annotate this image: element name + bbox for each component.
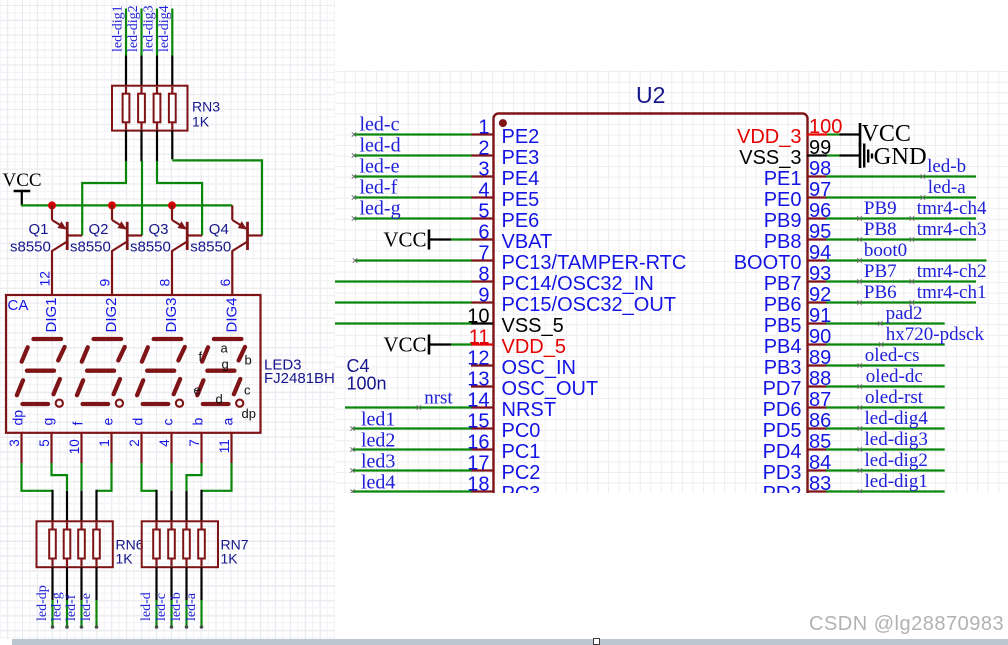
resistor network RN6 bbox=[37, 521, 113, 567]
net label anchor marker nrst bbox=[417, 405, 421, 409]
svg-text:dp: dp bbox=[242, 406, 256, 421]
net label anchor marker (pin 91) bbox=[878, 321, 882, 325]
wire end marker pin 5 bbox=[352, 216, 356, 220]
pin 6 VBAT (U2 left) bbox=[471, 222, 552, 254]
transistor Q4 s8550 bbox=[232, 205, 262, 251]
svg-text:1K: 1K bbox=[116, 551, 134, 567]
transistor Q3 s8550 bbox=[172, 205, 202, 251]
wire pin 100 to VCC bbox=[827, 133, 860, 135]
svg-text:PE6: PE6 bbox=[502, 210, 540, 232]
transistor Q2 s8550 bbox=[112, 205, 142, 251]
svg-text:4: 4 bbox=[157, 439, 172, 447]
wire to pin 16 bbox=[353, 448, 472, 450]
svg-text:c: c bbox=[160, 419, 176, 426]
wire end dot led-d bbox=[155, 625, 159, 629]
svg-text:a: a bbox=[221, 341, 229, 356]
wire to pin 7 bbox=[355, 259, 472, 261]
svg-text:d: d bbox=[130, 418, 146, 426]
wire end dot led-f bbox=[80, 625, 84, 629]
pin 7 stub (LED3) bbox=[200, 433, 202, 463]
svg-text:PE4: PE4 bbox=[502, 168, 540, 190]
svg-text:PB7: PB7 bbox=[764, 273, 802, 295]
junction dot at x=172 bbox=[168, 201, 176, 209]
wire end marker pin 7 bbox=[353, 258, 357, 262]
svg-text:4: 4 bbox=[478, 180, 489, 202]
svg-text:1: 1 bbox=[478, 117, 489, 139]
svg-text:PC3: PC3 bbox=[502, 483, 541, 505]
pin 14 NRST (U2 left) bbox=[467, 390, 556, 422]
net label anchor marker (pin 84) bbox=[858, 468, 862, 472]
svg-text:1: 1 bbox=[97, 439, 112, 447]
svg-text:dp: dp bbox=[10, 410, 26, 426]
svg-text:13: 13 bbox=[467, 369, 489, 391]
pin 12 OSC_IN (U2 left) bbox=[467, 348, 576, 380]
svg-text:6: 6 bbox=[217, 279, 233, 287]
wire end marker pin 17 bbox=[350, 468, 354, 472]
pin 3 stub (LED3) bbox=[20, 433, 22, 463]
svg-text:PD4: PD4 bbox=[763, 441, 802, 463]
svg-text:led-g: led-g bbox=[360, 198, 401, 220]
resistor network RN3 bbox=[112, 86, 188, 131]
svg-text:PE5: PE5 bbox=[502, 189, 540, 211]
wire to pin 10 bbox=[335, 322, 472, 324]
net label anchor marker (pin 92) bbox=[910, 300, 914, 304]
svg-text:100n: 100n bbox=[347, 374, 387, 394]
svg-text:DIG3: DIG3 bbox=[163, 297, 180, 332]
pin 84 PD3 (U2 right) bbox=[763, 452, 832, 484]
svg-text:PD2: PD2 bbox=[763, 483, 802, 505]
net label anchor marker (pin 97) bbox=[921, 195, 925, 199]
svg-text:DIG1: DIG1 bbox=[43, 297, 60, 332]
wire from pin 93 bbox=[826, 280, 976, 282]
svg-text:5: 5 bbox=[37, 439, 52, 447]
wire from pin 85 bbox=[826, 448, 945, 450]
pin 5 PE6 (U2 left) bbox=[471, 201, 539, 233]
wire led-dp output bbox=[51, 567, 53, 626]
svg-text:led-dig2: led-dig2 bbox=[865, 450, 928, 471]
svg-text:PC1: PC1 bbox=[502, 441, 541, 463]
wire to pin 9 bbox=[335, 301, 472, 303]
svg-text:PB3: PB3 bbox=[764, 357, 802, 379]
svg-text:VBAT: VBAT bbox=[502, 231, 553, 253]
svg-text:led-dig4: led-dig4 bbox=[157, 5, 172, 52]
svg-text:VCC: VCC bbox=[383, 333, 426, 357]
svg-text:BOOT0: BOOT0 bbox=[734, 252, 802, 274]
wire led-dig4 to RN3 bbox=[171, 9, 173, 87]
wire LED3 pin to RN 7 bbox=[187, 463, 202, 521]
svg-text:s8550: s8550 bbox=[70, 239, 111, 256]
svg-text:led-c: led-c bbox=[154, 593, 169, 621]
wire led-g output bbox=[66, 567, 68, 626]
pin 1 stub (LED3) bbox=[110, 433, 112, 463]
svg-text:OSC_OUT: OSC_OUT bbox=[502, 378, 599, 400]
wire end marker pin 1 bbox=[352, 132, 356, 136]
svg-text:led-a: led-a bbox=[184, 592, 199, 621]
wire to pin 8 bbox=[335, 280, 472, 282]
net label anchor marker (pin 92) bbox=[857, 300, 861, 304]
wire RN3.3 to Q3 base bbox=[157, 131, 202, 236]
7-segment display LED3 FJ2481BH bbox=[6, 295, 261, 433]
wire RN3.4 to Q4 base bbox=[172, 131, 262, 236]
power port VCC (left) bbox=[3, 170, 42, 205]
svg-text:12: 12 bbox=[37, 271, 53, 287]
wire end dot led-dp bbox=[51, 625, 55, 629]
svg-text:led-dig1: led-dig1 bbox=[865, 471, 928, 492]
svg-text:1K: 1K bbox=[221, 551, 239, 567]
svg-text:e: e bbox=[194, 383, 201, 398]
power ground GND (pin 99) bbox=[860, 143, 927, 170]
wire LED3 pin to RN 3 bbox=[80, 463, 82, 521]
svg-text:3: 3 bbox=[7, 439, 22, 447]
power port VCC (pin 11) bbox=[383, 333, 471, 357]
svg-text:DIG2: DIG2 bbox=[103, 297, 120, 332]
wire LED3 pin to RN 8 bbox=[202, 463, 232, 521]
svg-text:9: 9 bbox=[478, 285, 489, 307]
svg-text:led-f: led-f bbox=[64, 594, 79, 621]
svg-text:PB5: PB5 bbox=[764, 315, 802, 337]
pin 10 VSS_5 (U2 left) bbox=[467, 306, 564, 338]
wire from pin 91 bbox=[826, 322, 945, 324]
svg-text:RN3: RN3 bbox=[192, 99, 220, 115]
watermark bbox=[809, 613, 1004, 636]
wire from pin 83 bbox=[826, 490, 945, 492]
pin 8 PC14/OSC32_IN (U2 left) bbox=[471, 264, 654, 296]
wire led-f output bbox=[80, 567, 82, 626]
pin 13 OSC_OUT (U2 left) bbox=[467, 369, 598, 401]
net label anchor marker (pin 87) bbox=[858, 405, 862, 409]
wire LED3 pin to RN 4 bbox=[97, 463, 112, 521]
svg-text:e: e bbox=[100, 418, 116, 426]
pin 88 PD7 (U2 right) bbox=[763, 368, 832, 400]
wire from pin 96 bbox=[826, 217, 976, 219]
wire end marker pin 16 bbox=[350, 447, 354, 451]
right panel background bbox=[335, 70, 1008, 493]
wire led-dig3 to RN3 bbox=[156, 9, 158, 87]
wire led-d output bbox=[155, 567, 157, 626]
svg-text:tmr4-ch2: tmr4-ch2 bbox=[917, 261, 987, 282]
wire from pin 92 bbox=[826, 301, 976, 303]
transistor Q1 s8550 bbox=[52, 205, 82, 251]
net label anchor marker (pin 86) bbox=[858, 426, 862, 430]
wire to pin 5 bbox=[354, 217, 472, 219]
svg-text:PB4: PB4 bbox=[764, 336, 802, 358]
pin 2 PE3 (U2 left) bbox=[471, 138, 539, 170]
svg-text:VCC: VCC bbox=[383, 228, 426, 252]
svg-text:f: f bbox=[199, 349, 203, 364]
svg-text:led-dig3: led-dig3 bbox=[865, 429, 928, 450]
wire led-dig1 to RN3 bbox=[125, 9, 127, 87]
svg-text:PD5: PD5 bbox=[763, 420, 802, 442]
svg-text:VSS_3: VSS_3 bbox=[739, 147, 801, 169]
wire led-a output bbox=[200, 567, 202, 626]
wire end marker pin 15 bbox=[350, 426, 354, 430]
wire RN3.1 to Q1 base bbox=[82, 131, 126, 236]
svg-text:Q3: Q3 bbox=[149, 221, 169, 238]
svg-text:FJ2481BH: FJ2481BH bbox=[264, 370, 335, 387]
pin 99 VSS_3 (U2 right) bbox=[739, 137, 831, 169]
svg-text:tmr4-ch3: tmr4-ch3 bbox=[917, 219, 987, 240]
left grid background bbox=[0, 0, 335, 639]
pin 97 PE0 (U2 right) bbox=[764, 179, 832, 211]
digit glyph DIG4 bbox=[197, 339, 245, 407]
net label anchor marker (pin 98) bbox=[921, 174, 925, 178]
svg-text:PB6: PB6 bbox=[864, 282, 897, 303]
wire end marker pin 18 bbox=[350, 489, 354, 493]
net label anchor marker (pin 93) bbox=[910, 279, 914, 283]
wire end dot led-b bbox=[185, 625, 189, 629]
pin 1 PE2 (U2 left) bbox=[471, 117, 539, 149]
digit glyph DIG2 bbox=[77, 339, 125, 407]
svg-text:PC0: PC0 bbox=[502, 420, 541, 442]
wire to pin 1 bbox=[354, 133, 472, 135]
svg-text:led-b: led-b bbox=[169, 592, 184, 621]
svg-text:Q2: Q2 bbox=[89, 221, 109, 238]
pin 83 PD2 (U2 right) bbox=[763, 473, 832, 505]
pin 4 PE5 (U2 left) bbox=[471, 180, 539, 212]
svg-text:led-dig4: led-dig4 bbox=[865, 408, 929, 429]
wire end marker pin 3 bbox=[352, 174, 356, 178]
svg-text:PC14/OSC32_IN: PC14/OSC32_IN bbox=[502, 273, 654, 295]
svg-text:PE2: PE2 bbox=[502, 126, 540, 148]
wire end marker pin 2 bbox=[352, 153, 356, 157]
pin 11 VDD_5 (U2 left) bbox=[469, 327, 566, 359]
wire LED3 pin to RN 1 bbox=[22, 463, 53, 521]
svg-text:11: 11 bbox=[217, 439, 232, 453]
svg-text:d: d bbox=[216, 392, 223, 407]
svg-text:led-g: led-g bbox=[50, 592, 65, 621]
svg-text:oled-rst: oled-rst bbox=[865, 387, 924, 408]
resistor network RN7 bbox=[142, 521, 218, 567]
svg-text:PB8: PB8 bbox=[764, 231, 802, 253]
svg-text:VCC: VCC bbox=[3, 170, 42, 191]
net label anchor marker (pin 93) bbox=[857, 279, 861, 283]
wire Q2 collector to LED3 bbox=[111, 250, 113, 295]
svg-text:12: 12 bbox=[467, 348, 489, 370]
svg-text:led2: led2 bbox=[361, 430, 395, 452]
wire led-dig2 to RN3 bbox=[140, 9, 142, 87]
wire VCC rail bbox=[21, 204, 232, 206]
svg-text:tmr4-ch4: tmr4-ch4 bbox=[917, 198, 987, 219]
svg-text:PB7: PB7 bbox=[864, 261, 897, 282]
svg-text:led-dig2: led-dig2 bbox=[126, 5, 141, 52]
digit glyph DIG1 bbox=[17, 339, 65, 407]
net label anchor marker (pin 83) bbox=[858, 489, 862, 493]
wire end dot led-a bbox=[200, 625, 204, 629]
svg-text:8: 8 bbox=[478, 264, 489, 286]
digit glyph DIG3 bbox=[137, 339, 185, 407]
wire to pin 15 bbox=[353, 427, 472, 429]
pin 18 PC3 (U2 left) bbox=[467, 474, 540, 506]
pin 86 PD5 (U2 right) bbox=[763, 410, 832, 442]
pin 89 PB3 (U2 right) bbox=[764, 347, 832, 379]
svg-text:PB8: PB8 bbox=[864, 219, 897, 240]
svg-text:s8550: s8550 bbox=[10, 239, 51, 256]
svg-text:pad2: pad2 bbox=[886, 303, 923, 324]
wire pin 99 to GND bbox=[827, 154, 860, 156]
svg-text:U2: U2 bbox=[636, 82, 665, 108]
scrollbar band bbox=[12, 639, 1008, 645]
svg-text:VDD_3: VDD_3 bbox=[737, 126, 801, 148]
svg-text:PB9: PB9 bbox=[864, 198, 897, 219]
wire from pin 95 bbox=[826, 238, 976, 240]
wire end dot led-c bbox=[170, 625, 174, 629]
svg-text:a: a bbox=[220, 418, 236, 426]
pin 90 PB4 (U2 right) bbox=[764, 326, 832, 358]
svg-text:led-c: led-c bbox=[360, 114, 400, 136]
svg-text:PB6: PB6 bbox=[764, 294, 802, 316]
svg-text:b: b bbox=[190, 418, 206, 426]
svg-text:PD7: PD7 bbox=[763, 378, 802, 400]
wire to pin 18 bbox=[353, 490, 472, 492]
pin 2 stub (LED3) bbox=[140, 433, 142, 463]
svg-text:led3: led3 bbox=[361, 451, 395, 473]
net label anchor marker (pin 94) bbox=[857, 258, 861, 262]
wire from pin 89 bbox=[826, 364, 945, 366]
svg-text:DIG4: DIG4 bbox=[224, 297, 241, 332]
svg-text:Q1: Q1 bbox=[29, 221, 49, 238]
svg-text:led-b: led-b bbox=[927, 156, 966, 177]
pin 91 PB5 (U2 right) bbox=[764, 305, 832, 337]
pin 95 PB8 (U2 right) bbox=[764, 221, 832, 253]
wire to pin 3 bbox=[354, 175, 472, 177]
svg-text:11: 11 bbox=[469, 327, 490, 349]
pin-1 marker dot (U2) bbox=[499, 119, 507, 127]
svg-text:PC15/OSC32_OUT: PC15/OSC32_OUT bbox=[502, 294, 677, 316]
wire from pin 97 bbox=[826, 196, 976, 198]
wire end marker pin 4 bbox=[352, 195, 356, 199]
pin 5 stub (LED3) bbox=[50, 433, 52, 463]
pin 10 stub (LED3) bbox=[80, 433, 82, 463]
selection handle bbox=[593, 638, 600, 645]
svg-text:PE1: PE1 bbox=[764, 168, 802, 190]
net label anchor marker (pin 89) bbox=[858, 363, 862, 367]
svg-text:10: 10 bbox=[67, 439, 82, 454]
svg-text:8: 8 bbox=[157, 279, 173, 287]
pin 7 PC13/TAMPER-RTC (U2 left) bbox=[471, 243, 686, 275]
net label anchor marker (pin 96) bbox=[857, 216, 861, 220]
wire LED3 pin to RN 2 bbox=[52, 463, 68, 521]
net label anchor marker (pin 95) bbox=[910, 237, 914, 241]
wire from pin 84 bbox=[826, 469, 945, 471]
wire to pin 17 bbox=[353, 469, 472, 471]
svg-text:f: f bbox=[70, 422, 86, 426]
svg-text:s8550: s8550 bbox=[130, 239, 171, 256]
wire from pin 98 bbox=[826, 175, 976, 177]
svg-text:g: g bbox=[222, 357, 229, 372]
svg-text:PE0: PE0 bbox=[764, 189, 802, 211]
wire led-e output bbox=[95, 567, 97, 626]
svg-text:led-dp: led-dp bbox=[35, 585, 50, 621]
wire Q3 collector to LED3 bbox=[171, 250, 173, 295]
svg-text:PE3: PE3 bbox=[502, 147, 540, 169]
svg-text:b: b bbox=[245, 353, 252, 368]
pin 100 VDD_3 (U2 right) bbox=[737, 116, 842, 148]
wire end dot led-g bbox=[65, 625, 69, 629]
svg-text:oled-dc: oled-dc bbox=[866, 366, 923, 387]
svg-text:2: 2 bbox=[478, 138, 489, 160]
svg-text:led-d: led-d bbox=[360, 135, 401, 157]
svg-text:CA: CA bbox=[8, 297, 29, 314]
pin 3 PE4 (U2 left) bbox=[471, 159, 539, 191]
svg-text:7: 7 bbox=[478, 243, 489, 265]
net label anchor marker (pin 95) bbox=[857, 237, 861, 241]
wire LED3 pin to RN 5 bbox=[142, 463, 157, 521]
svg-text:led-e: led-e bbox=[79, 593, 94, 621]
svg-text:VSS_5: VSS_5 bbox=[502, 315, 564, 337]
svg-text:tmr4-ch1: tmr4-ch1 bbox=[917, 282, 987, 303]
pin 4 stub (LED3) bbox=[170, 433, 172, 463]
pin 92 PB6 (U2 right) bbox=[764, 284, 832, 316]
wire LED3 pin to RN 6 bbox=[170, 463, 172, 521]
pin 15 PC0 (U2 left) bbox=[467, 411, 540, 443]
svg-text:led-dig1: led-dig1 bbox=[111, 5, 126, 52]
pin 98 PE1 (U2 right) bbox=[764, 158, 832, 190]
power port VCC (pin 6) bbox=[383, 228, 471, 252]
power port VCC (pin 100) bbox=[860, 121, 911, 147]
svg-text:NRST: NRST bbox=[502, 399, 556, 421]
pin 17 PC2 (U2 left) bbox=[467, 453, 540, 485]
wire Q1 collector to LED3 bbox=[51, 250, 53, 295]
pin 87 PD6 (U2 right) bbox=[763, 389, 832, 421]
svg-text:nrst: nrst bbox=[424, 388, 453, 409]
wire to pin 14 bbox=[345, 406, 472, 408]
svg-text:led-a: led-a bbox=[928, 177, 967, 198]
svg-text:9: 9 bbox=[97, 279, 113, 287]
pin 16 PC1 (U2 left) bbox=[467, 432, 540, 464]
svg-text:led-dig3: led-dig3 bbox=[142, 5, 157, 52]
svg-text:2: 2 bbox=[127, 439, 142, 447]
svg-text:OSC_IN: OSC_IN bbox=[502, 357, 576, 379]
svg-text:7: 7 bbox=[187, 439, 202, 447]
svg-text:s8550: s8550 bbox=[190, 239, 231, 256]
wire to pin 4 bbox=[354, 196, 472, 198]
pin 9 PC15/OSC32_OUT (U2 left) bbox=[471, 285, 676, 317]
svg-text:5: 5 bbox=[478, 201, 489, 223]
svg-text:boot0: boot0 bbox=[864, 240, 907, 261]
wire led-c output bbox=[170, 567, 172, 626]
net label anchor marker (pin 88) bbox=[858, 384, 862, 388]
svg-text:c: c bbox=[244, 383, 251, 398]
svg-text:1K: 1K bbox=[192, 114, 210, 130]
svg-text:led-d: led-d bbox=[139, 592, 154, 621]
pin 93 PB7 (U2 right) bbox=[764, 263, 832, 295]
svg-text:g: g bbox=[40, 418, 56, 426]
junction dot at x=112 bbox=[108, 201, 116, 209]
svg-text:PC13/TAMPER-RTC: PC13/TAMPER-RTC bbox=[502, 252, 687, 274]
pin 94 BOOT0 (U2 right) bbox=[734, 242, 832, 274]
svg-text:led1: led1 bbox=[361, 409, 395, 431]
wire end dot led-e bbox=[95, 625, 99, 629]
svg-text:led4: led4 bbox=[361, 472, 395, 494]
svg-text:PD3: PD3 bbox=[763, 462, 802, 484]
net label anchor marker (pin 96) bbox=[910, 216, 914, 220]
svg-text:GND: GND bbox=[874, 143, 927, 170]
wire led-b output bbox=[185, 567, 187, 626]
svg-text:led-e: led-e bbox=[360, 156, 400, 178]
net label anchor marker (pin 85) bbox=[858, 447, 862, 451]
wire from pin 86 bbox=[826, 427, 945, 429]
wire to pin 2 bbox=[354, 154, 472, 156]
svg-text:PC2: PC2 bbox=[502, 462, 541, 484]
svg-text:6: 6 bbox=[478, 222, 489, 244]
svg-text:oled-cs: oled-cs bbox=[865, 345, 920, 366]
IC U2 bbox=[494, 114, 808, 500]
wire from pin 87 bbox=[826, 406, 945, 408]
svg-text:PB9: PB9 bbox=[764, 210, 802, 232]
wire Q4 collector to LED3 bbox=[231, 250, 233, 295]
wire from pin 94 bbox=[826, 259, 987, 261]
svg-text:hx720-pdsck: hx720-pdsck bbox=[886, 324, 985, 345]
